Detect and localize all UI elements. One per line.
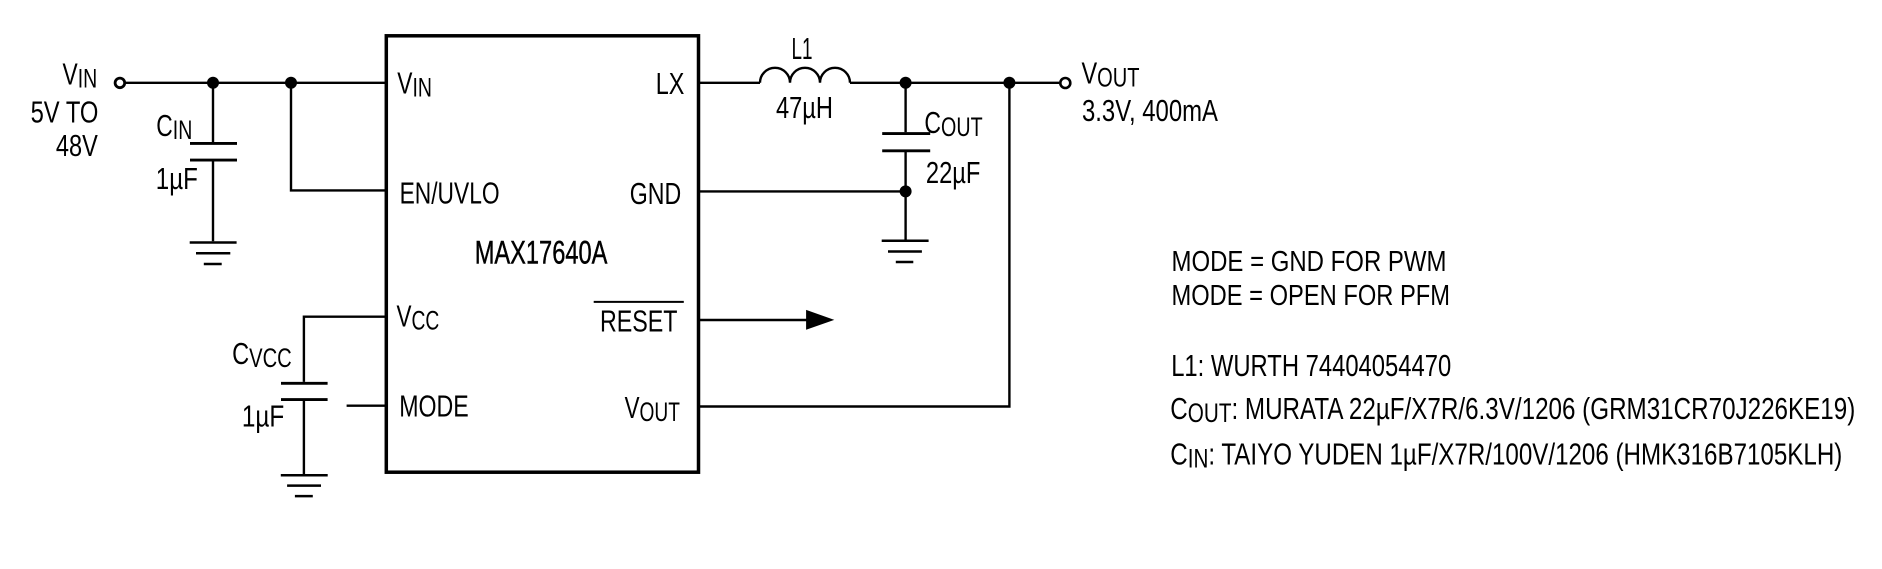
wire VCC to CVCC — [304, 317, 386, 382]
wire LX to inductor — [698, 82, 760, 84]
wire GND pin to COUT — [698, 190, 906, 192]
svg-text:LX: LX — [656, 66, 685, 101]
svg-text:1µF: 1µF — [156, 161, 198, 196]
svg-text:L1: L1 — [792, 31, 813, 66]
node junction at EN branch — [285, 77, 297, 89]
ground (CVCC) — [281, 475, 328, 496]
wire CIN bottom to ground — [212, 160, 214, 241]
svg-text:EN/UVLO: EN/UVLO — [400, 175, 500, 210]
output terminal VOUT — [1060, 78, 1070, 88]
svg-text:48V: 48V — [56, 128, 98, 163]
svg-text:MODE = OPEN FOR PFM: MODE = OPEN FOR PFM — [1172, 280, 1451, 312]
node junction at CIN — [207, 77, 219, 89]
svg-text:CIN: TAIYO YUDEN 1µF/X7R/100V/: CIN: TAIYO YUDEN 1µF/X7R/100V/1206 (HMK3… — [1170, 436, 1842, 473]
inductor L1 — [760, 68, 850, 83]
svg-text:GND: GND — [630, 176, 681, 211]
capacitor CIN — [190, 142, 237, 145]
wire CVCC to ground — [303, 400, 305, 474]
node junction GND/COUT — [900, 185, 912, 197]
svg-text:COUT: MURATA 22µF/X7R/6.3V/120: COUT: MURATA 22µF/X7R/6.3V/1206 (GRM31CR… — [1170, 391, 1855, 428]
wire inductor to VOUT terminal — [850, 82, 1059, 84]
svg-text:RESET: RESET — [600, 303, 678, 338]
svg-text:L1: WURTH 74404054470: L1: WURTH 74404054470 — [1171, 348, 1451, 383]
node junction at COUT — [900, 77, 912, 89]
wire node to CIN top — [212, 83, 214, 142]
svg-text:MODE = GND FOR PWM: MODE = GND FOR PWM — [1172, 246, 1447, 278]
svg-text:MODE: MODE — [399, 389, 469, 424]
RESET overline — [594, 301, 684, 303]
wire RESET output — [698, 319, 807, 321]
wire COUT bottom to ground — [904, 151, 906, 240]
capacitor CVCC — [281, 382, 328, 385]
ground (CIN) — [190, 243, 237, 265]
wire VIN terminal to VIN pin — [126, 82, 386, 84]
wire MODE stub — [347, 405, 387, 407]
ground (COUT) — [882, 241, 929, 262]
svg-text:1µF: 1µF — [242, 398, 284, 433]
capacitor COUT — [882, 132, 930, 135]
svg-text:3.3V, 400mA: 3.3V, 400mA — [1082, 93, 1218, 128]
wire VOUT feedback — [698, 83, 1010, 407]
wire EN/UVLO branch — [291, 83, 386, 191]
wire node to COUT top — [904, 83, 906, 132]
arrow head RESET — [806, 310, 834, 330]
svg-text:5V TO: 5V TO — [31, 94, 99, 129]
svg-text:MAX17640A: MAX17640A — [475, 235, 608, 271]
svg-text:22µF: 22µF — [926, 155, 981, 190]
IC U1 MAX17640A box — [386, 36, 698, 472]
input terminal VIN — [115, 78, 125, 88]
node junction at VOUT feedback — [1003, 77, 1015, 89]
svg-text:47µH: 47µH — [776, 90, 833, 125]
